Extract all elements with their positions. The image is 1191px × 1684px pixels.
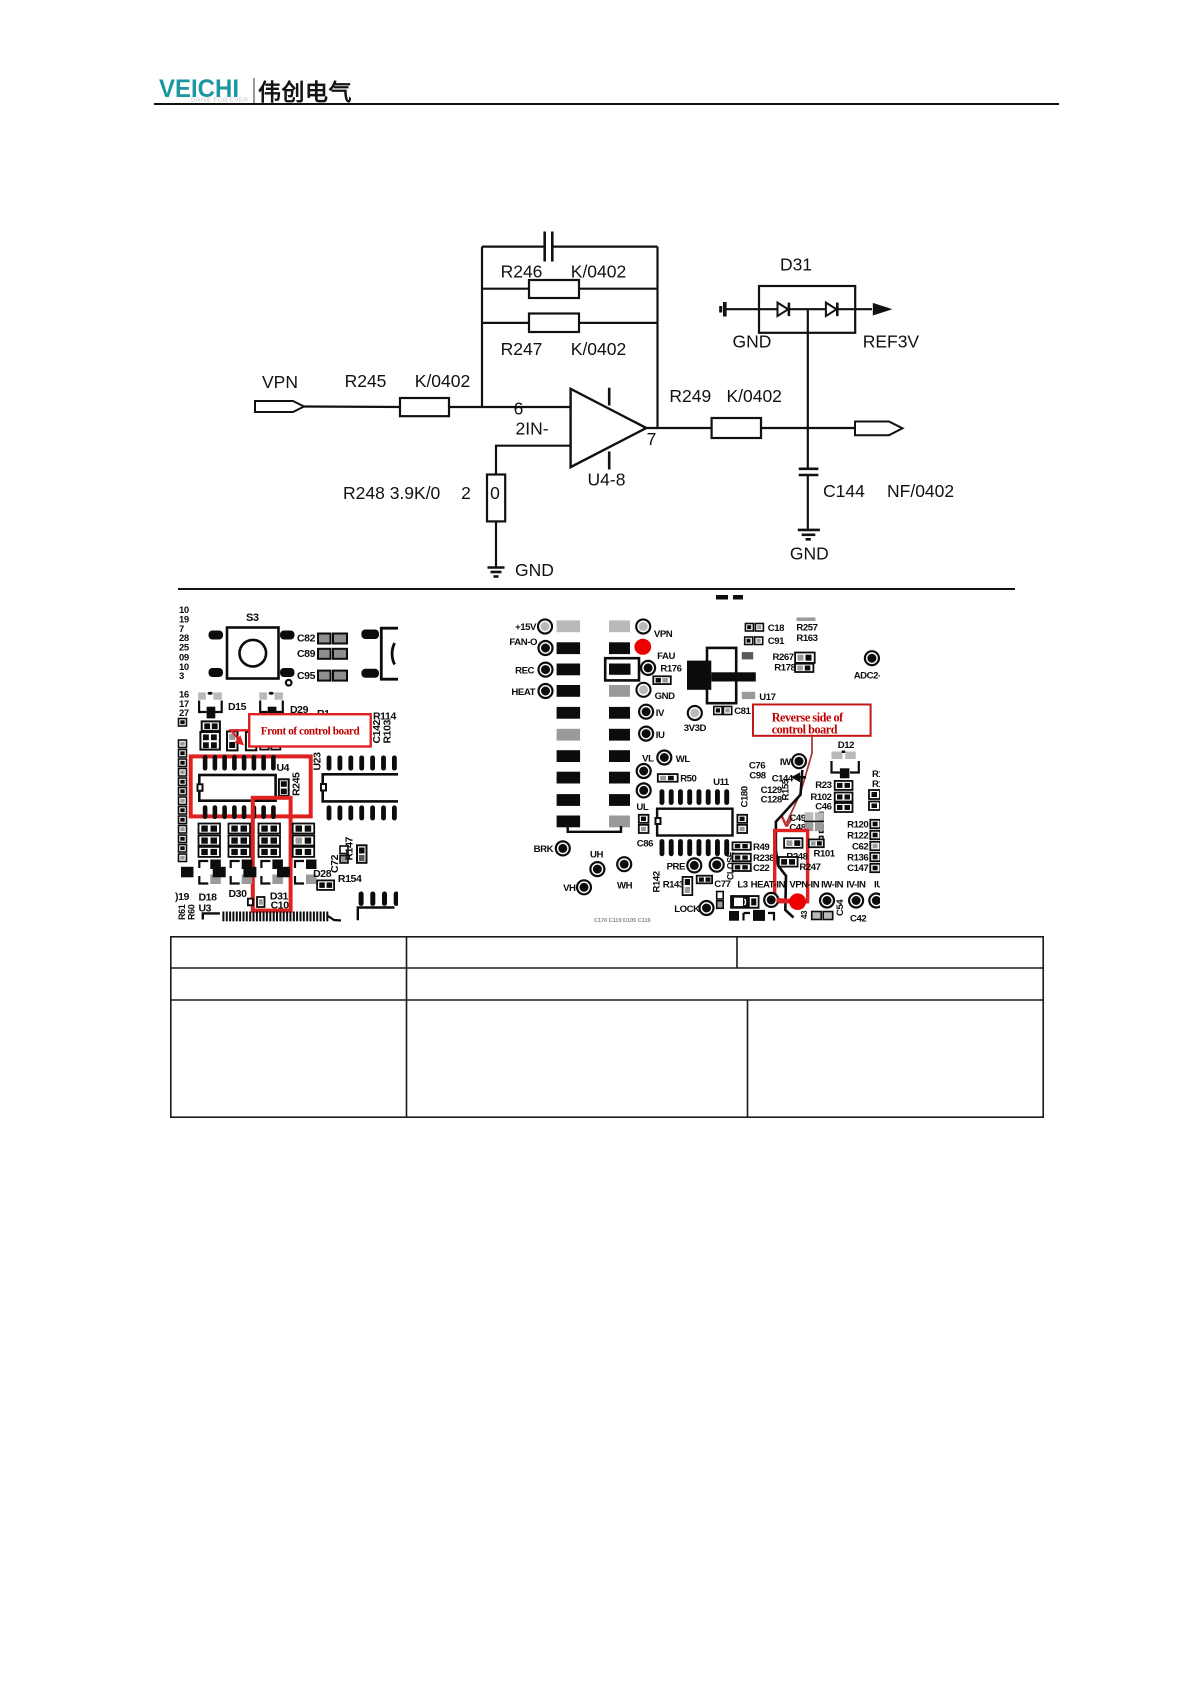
svg-text:R267: R267 [773,652,794,663]
left cut components [820,812,824,844]
svg-text:UH: UH [590,850,603,861]
svg-text:R154: R154 [338,873,362,885]
svg-text:VPN-IN: VPN-IN [789,880,819,891]
svg-text:C128: C128 [761,795,783,806]
svg-text:U17: U17 [759,692,775,703]
wire feedback right vertical to output node [656,247,658,428]
red marker dot VPN-IN [789,893,806,910]
svg-text:R142: R142 [652,871,663,892]
capacitors C49 C48 [789,812,824,833]
svg-text:C46: C46 [815,802,831,813]
net label VPN [262,372,298,392]
svg-text:FAU: FAU [657,651,675,662]
labels R257 R163 [796,618,817,645]
bottom connector pin row [203,912,341,922]
resistor R249 [712,418,761,438]
svg-text:IU: IU [656,730,665,741]
svg-text:K/0402: K/0402 [571,339,626,359]
test point ADC2- [854,651,881,681]
svg-text:K/0402: K/0402 [571,262,626,282]
svg-text:Front of control board: Front of control board [261,726,361,738]
small parts near C10 [247,897,265,907]
svg-text:C170 C119 D105 C119: C170 C119 D105 C119 [594,918,651,924]
resistor R245 [400,398,449,416]
capacitor C144 [799,469,819,475]
svg-text:D31: D31 [780,254,812,274]
svg-text:REC: REC [515,666,534,677]
gray cut text bottom [594,918,651,924]
svg-text:C95: C95 [297,670,316,682]
svg-text:LOCK: LOCK [674,904,700,915]
svg-text:C144: C144 [823,481,865,501]
test point 3V3D [684,706,707,734]
pushbutton (cut at image edge) [361,628,398,679]
boxed pad (FAU row) [605,658,639,680]
header rule [154,103,1059,105]
pushbutton S3 [209,612,295,686]
capacitors C82 C89 C95 [297,633,347,683]
labels R114 C142 R103 [371,711,396,744]
resistors R267 R178 [773,652,815,674]
svg-text:C22: C22 [753,863,769,874]
svg-text:control board: control board [772,723,838,737]
svg-text:GND: GND [732,331,771,351]
value label R248 3.9K/0402 [343,483,500,503]
ref label D31 [780,254,812,274]
small capacitor pads row [200,721,280,750]
diode D29 [259,692,283,719]
labels C76 C98 [749,761,767,782]
svg-text:U11: U11 [713,777,730,788]
test point REC [515,663,552,677]
red highlight box around R248/R247 [775,831,808,902]
svg-text:VL: VL [642,754,654,765]
wire R245 to op-amp pin 6 [449,406,571,408]
label C86 [637,839,653,850]
separator line above PCB photos [178,588,1015,590]
node output connector [855,422,903,436]
label D15 [228,701,247,713]
terminal GND side of D31 [719,302,725,317]
test point column (unlabeled) and UL [636,764,650,813]
svg-text:IW-IN: IW-IN [821,880,844,891]
value label R246 K/0402 [501,262,627,282]
svg-text:C82: C82 [297,633,316,645]
svg-text:C42: C42 [850,914,866,925]
capacitor C81 [714,706,752,717]
test point VH [563,880,591,894]
resistor R247 (PCB) [779,857,821,873]
relay/connector component [687,648,756,703]
svg-text:D12: D12 [838,740,854,751]
svg-text:HEAT-IN: HEAT-IN [751,880,786,891]
svg-text:R247: R247 [501,339,543,359]
label CLOSE [726,851,736,880]
arrow to REF3V [873,303,893,316]
svg-text:R246: R246 [501,262,543,282]
inductor L3 component [730,895,759,909]
svg-text:R163: R163 [796,633,817,644]
ref label U4-8 [588,470,626,490]
wire through D31 [726,308,873,310]
black signal trace [756,770,802,918]
svg-text:C180: C180 [740,786,751,807]
IC U23 [312,752,401,821]
bottom right pin group [358,892,399,921]
svg-text:R103: R103 [382,719,394,743]
svg-text:IV: IV [656,708,665,719]
wire R249 to output connector [761,427,856,429]
svg-text:0: 0 [490,483,500,503]
table [170,936,1044,1118]
svg-text:D30: D30 [229,888,248,900]
rotated label 43 [800,910,809,919]
test point LOCK [674,901,713,915]
label U17 [759,692,775,703]
gray pads bottom [812,912,833,920]
svg-text:REF3V: REF3V [863,331,920,351]
label FAU [657,651,675,662]
labels C72 R147 [329,836,367,873]
svg-text:R122: R122 [847,831,868,842]
svg-text:6: 6 [514,399,524,419]
svg-text:R143: R143 [663,880,684,891]
labels C129 C128 R155 [761,778,792,805]
resistor R50 [658,774,697,785]
svg-text:3V3D: 3V3D [684,723,707,734]
svg-text:C98: C98 [749,771,766,782]
svg-text:C10: C10 [271,900,290,912]
wire feedback top to capacitor [482,246,658,248]
svg-text:R101: R101 [814,849,836,860]
diode D15 [198,692,222,719]
svg-text:43: 43 [800,910,809,919]
svg-text:GND: GND [515,560,554,580]
svg-text:C86: C86 [637,839,653,850]
SMD pad column B [609,620,630,827]
wire R247 row [482,322,658,324]
test point WH [617,857,633,891]
resistor R101 [809,839,836,859]
svg-text:IU: IU [874,880,883,891]
value label R247 K/0402 [501,339,627,359]
svg-text:C77: C77 [714,879,730,890]
red highlight box around U4/R245 [191,756,311,816]
net label REF3V [863,331,920,351]
red leader line with arrow [782,736,813,827]
svg-text:2IN-: 2IN- [515,419,548,439]
svg-text:GND: GND [655,691,675,702]
test point IW-IN [820,894,834,908]
svg-text:C91: C91 [768,636,785,647]
resistors R49 R238 C22 [733,842,776,874]
resistors R23 R102 C46 [810,780,852,813]
wire R248 to ground [495,521,497,566]
wire inverting input to R248 [496,446,571,475]
svg-text:R245: R245 [345,371,387,391]
svg-text:NF/0402: NF/0402 [887,481,954,501]
svg-text:R1: R1 [872,779,884,790]
test point IU (cut) [869,894,883,908]
label C54 [835,899,846,916]
red annotation box: Front of control board [249,714,371,746]
red connector stub [777,898,791,903]
svg-text:VPN: VPN [262,372,298,392]
ground (below R248) [488,568,505,577]
red arrow annotation [231,730,250,745]
IC U4 [198,755,290,819]
wire C144 to ground [807,475,809,529]
svg-text:D15: D15 [228,701,247,713]
rotated labels [177,904,197,920]
svg-text:U23: U23 [312,752,324,771]
red marker dot FAU/VPN [634,639,651,655]
test point +15V [515,620,552,634]
bottom net labels L3 HEAT-IN VPN-IN IW-IN IV-IN IU [737,880,883,891]
PCB left edge pad column [179,719,187,862]
diode pair D31 box [759,286,855,333]
label D29 [290,704,309,716]
test point IV [639,705,665,719]
svg-text:R49: R49 [753,842,769,853]
svg-text:GND: GND [790,543,829,563]
svg-text:K/0402: K/0402 [415,371,470,391]
header logo tagline [191,98,248,104]
diode row D18 D30 D31 [181,860,317,885]
svg-text:BRK: BRK [534,844,554,855]
label C42 (cut) [850,914,866,925]
svg-text:C147: C147 [847,863,868,874]
test point BRK [534,841,570,855]
svg-text:R60: R60 [187,904,197,920]
label D28 and resistor R154 [313,868,362,890]
test point HEAT [511,684,552,698]
svg-text:R178: R178 [774,663,796,674]
svg-text:VPN: VPN [654,629,673,640]
svg-text:C18: C18 [768,623,785,634]
svg-text:UL: UL [636,802,648,813]
svg-text:R50: R50 [680,774,696,785]
svg-text:R249: R249 [669,386,711,406]
svg-text:R247: R247 [799,862,820,873]
labels R142 R143 C77 [652,871,731,895]
test point IV-IN [849,894,863,908]
header logo Chinese [258,81,352,104]
svg-text:WH: WH [617,881,633,892]
svg-text:R245: R245 [291,772,303,796]
svg-text:R147: R147 [344,836,356,860]
test point IW [780,754,806,768]
test point FAN-O [509,637,552,655]
test points VL WL [642,751,690,766]
resistor R245 (PCB) [279,772,303,796]
svg-text:R61: R61 [177,904,187,920]
svg-text:R176: R176 [660,664,681,675]
svg-text:C89: C89 [297,648,316,660]
labels D19 D18 D30 D31 U3 C10 [175,888,289,915]
net label GND (D31) [732,331,771,351]
svg-text:ADC2-: ADC2- [854,671,881,682]
svg-text:PRE: PRE [667,862,686,873]
net label GND (below R248) [515,560,554,580]
cut components right edge [869,769,884,810]
svg-text:L3: L3 [737,880,747,891]
PCB silk text column (cut labels) [179,605,190,719]
svg-text:IW: IW [780,757,792,768]
test points PRE [667,858,724,873]
header divider bar [253,78,255,103]
svg-text:R248 3.9K/0: R248 3.9K/0 [343,483,441,503]
value label R245 K/0402 [345,371,471,391]
svg-text:R120: R120 [847,820,868,831]
svg-text:WL: WL [676,754,691,765]
wire VPN to R245 [303,405,401,408]
svg-text:+15V: +15V [515,622,537,633]
svg-text:VH: VH [563,883,576,894]
test point UH [590,850,604,877]
header logo VEICHI [159,77,239,102]
top edge cut marks [716,595,743,600]
svg-text:R155: R155 [781,778,792,800]
value label C144 NF/0402 [823,481,954,501]
wire D31 to output node and C144 [807,309,809,468]
pin number 7 [647,429,657,449]
wire feedback left vertical [481,247,483,407]
svg-text:U4-8: U4-8 [588,470,626,490]
small parts near LOCK [717,892,724,909]
resistor R248 [487,475,505,522]
svg-text:U4: U4 [277,762,290,774]
svg-text:C54: C54 [835,899,846,916]
svg-text:S3: S3 [246,612,259,624]
red highlight box around D31/C10 [253,798,291,911]
ground (below C144) [798,530,820,539]
svg-text:3: 3 [179,671,184,682]
SMD pad column A [557,620,581,827]
value label R249 K/0402 [669,386,782,406]
label fragment [317,708,330,720]
label C180 and side parts [639,786,751,833]
test point HEAT-IN [764,893,778,907]
svg-text:IV-IN: IV-IN [846,880,866,891]
diode D31a [778,303,789,317]
connector bracket under columns [568,826,621,832]
svg-text:)19: )19 [175,891,190,903]
test point R176 [641,661,682,684]
capacitors C18 C91 [745,623,785,647]
test point IU [639,727,665,741]
wire R246 row [482,288,658,290]
diode D12 [832,740,859,778]
net label GND (below C144) [790,543,829,563]
pin label 2IN- [515,419,548,439]
svg-text:R136: R136 [847,853,868,864]
bottom cut components [729,910,774,921]
svg-text:7: 7 [647,429,657,449]
svg-text:C81: C81 [734,706,751,717]
SMD capacitor banks [199,824,315,857]
IC U11 [656,777,733,856]
node VPN input connector [255,401,304,412]
svg-text:27: 27 [179,708,189,719]
resistors R120 R122 C62 R136 C147 [847,820,880,875]
svg-text:K/0402: K/0402 [726,386,781,406]
svg-text:R257: R257 [796,623,817,634]
resistor R248 (PCB) [784,838,809,862]
resistor R247 [529,314,579,333]
diode D31b [826,303,837,317]
test point GND [637,683,676,702]
svg-text:HEAT: HEAT [511,687,535,698]
red annotation box: Reverse side of control board [753,705,871,737]
capacitor (feedback, top) [545,232,553,262]
svg-text:R23: R23 [815,780,831,791]
op-amp U4-8 [571,388,647,470]
wire op-amp output pin 7 to R249 [646,427,711,429]
resistor R246 [529,280,579,298]
svg-text:2: 2 [461,483,471,503]
pin number 6 [514,399,524,419]
label C144 with arrow [772,772,806,784]
svg-text:C62: C62 [852,842,868,853]
svg-text:FAN-O: FAN-O [509,637,538,648]
test point VPN [636,620,673,641]
